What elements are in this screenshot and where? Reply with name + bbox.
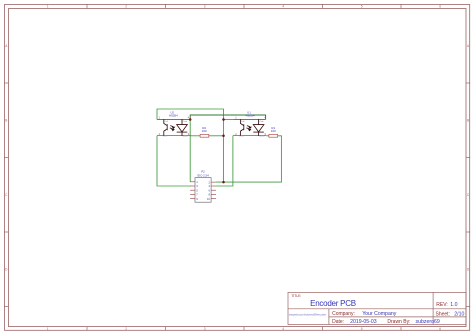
svg-text:2: 2 [125, 5, 127, 9]
resistor R1 body [269, 134, 278, 137]
connector P2 right pins 2,4,6,8,10 [211, 182, 216, 199]
svg-text:6: 6 [439, 327, 441, 331]
svg-text:5: 5 [361, 5, 363, 9]
svg-text:subzero69: subzero69 [416, 319, 440, 325]
svg-text:Date:: Date: [332, 319, 344, 325]
border zone letters right [467, 44, 470, 272]
optocoupler U1 bottom pin rail [233, 135, 266, 137]
svg-text:6: 6 [439, 5, 441, 9]
border zone ticks bottom [87, 327, 401, 331]
connector P2 left pins 1,3,5,7,9 [190, 182, 195, 199]
wire: branch to U1 pin1 [224, 119, 234, 121]
U2 pin names [163, 120, 189, 138]
optocoupler U2 phototransistor [164, 119, 167, 135]
U1 pin numbers [235, 116, 266, 136]
connector P2 body [195, 178, 211, 203]
junction node common/R2 [222, 135, 225, 138]
svg-text:TITLE:: TITLE: [291, 294, 301, 298]
optocoupler U2 bottom pin rail [157, 135, 190, 137]
wire: U2 cathode to R2 [190, 135, 200, 137]
svg-text:Your Company: Your Company [362, 311, 397, 317]
border zone letters left [5, 44, 8, 272]
title block frame [288, 292, 466, 324]
svg-text:3: 3 [204, 327, 206, 331]
svg-text:Drawn By:: Drawn By: [387, 319, 410, 325]
svg-text:Encoder PCB: Encoder PCB [310, 299, 356, 308]
optocoupler U1 emitter arrow [241, 130, 243, 132]
svg-text:B: B [5, 119, 7, 123]
svg-text:Coll: Coll [241, 121, 245, 123]
svg-text:Anod: Anod [260, 135, 266, 138]
svg-text:H92B4: H92B4 [169, 113, 178, 117]
svg-text:100: 100 [271, 129, 276, 133]
border zone numbers bottom [47, 327, 442, 331]
wire: U1 cathode to R1 [266, 135, 269, 137]
optocoupler U1 top pin rail [234, 118, 266, 120]
svg-text:5: 5 [361, 327, 363, 331]
svg-text:1: 1 [47, 327, 49, 331]
wire: U2 emitter loop to P2 pin3 [157, 136, 191, 186]
svg-text:easyeda.com/subzero69/encoder: easyeda.com/subzero69/encoder [289, 313, 326, 317]
svg-text:Coll: Coll [164, 121, 168, 123]
border zone ticks top [87, 4, 401, 9]
svg-text:2/10: 2/10 [454, 312, 464, 318]
svg-text:Emit: Emit [239, 135, 244, 138]
junction node common/P2.2 [222, 181, 225, 184]
U1 pin names [239, 120, 265, 138]
wire: P2 pin2 to right loop and R1 [216, 136, 281, 182]
svg-text:4: 4 [282, 5, 284, 9]
svg-text:1.0: 1.0 [450, 302, 457, 308]
optocoupler U1 light arrows [246, 126, 251, 131]
svg-text:Company:: Company: [332, 311, 355, 317]
resistor R2 body [200, 134, 209, 137]
svg-text:3: 3 [204, 5, 206, 9]
border zone ticks right [466, 83, 470, 307]
svg-text:100: 100 [202, 129, 207, 133]
wire: U2.A down to P2 pin1 [189, 120, 191, 182]
svg-text:Sheet:: Sheet: [436, 312, 450, 318]
svg-text:1: 1 [47, 5, 49, 9]
svg-text:2019-05-03: 2019-05-03 [350, 319, 377, 325]
border zone ticks left [4, 83, 9, 307]
U2 pin numbers [159, 116, 190, 136]
svg-text:H92B4: H92B4 [246, 113, 255, 117]
optocoupler U1 LED diode [253, 119, 264, 135]
svg-text:B: B [467, 119, 469, 123]
svg-text:REV:: REV: [436, 302, 447, 308]
svg-text:Anod: Anod [183, 135, 189, 138]
wire: P2 pin4 to U1 emitter [216, 136, 233, 186]
junction node common/U1.C [222, 118, 225, 121]
svg-text:Emit: Emit [163, 135, 168, 138]
connector P2 pin numbers [196, 180, 198, 201]
optocoupler U2 emitter arrow [164, 130, 166, 132]
wire: anode link U2.A to U1.A [190, 115, 265, 120]
optocoupler U2 LED diode [177, 119, 188, 135]
border zone numbers top [47, 5, 442, 9]
junction node U2.A/P2.1 [189, 118, 192, 121]
optocoupler U1 phototransistor [240, 119, 243, 135]
svg-text:10: 10 [207, 197, 211, 201]
optocoupler U2 top pin rail [157, 118, 190, 120]
svg-text:2: 2 [125, 327, 127, 331]
optocoupler U2 light arrows [170, 126, 175, 131]
wire: R2 to common vertical [209, 135, 224, 137]
svg-text:IDC-2.54: IDC-2.54 [197, 174, 209, 178]
wire: top rail net (U2.C to U1.C common) [157, 109, 224, 182]
svg-text:4: 4 [282, 327, 284, 331]
